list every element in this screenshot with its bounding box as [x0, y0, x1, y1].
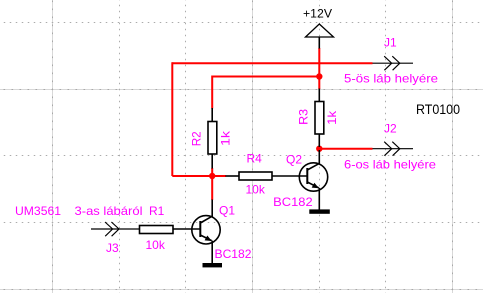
- resistor R2: [208, 108, 217, 169]
- label R2: [190, 131, 204, 146]
- label R4: [247, 152, 263, 166]
- svg-text:+12V: +12V: [303, 7, 332, 21]
- label net 3-as labarol: [75, 204, 143, 218]
- label R1: [149, 204, 165, 218]
- label Q2 type BC182: [273, 195, 313, 209]
- svg-text:10k: 10k: [246, 183, 266, 197]
- svg-text:Q2: Q2: [286, 152, 302, 166]
- svg-text:J3: J3: [106, 241, 119, 255]
- label R1 value 10k: [146, 238, 166, 252]
- wire stub junction to R4: [212, 175, 226, 177]
- junction dot node B (R3/Q2/J2): [316, 146, 322, 152]
- label R3: [296, 109, 310, 125]
- wire junction down to Q1 collector: [211, 168, 213, 200]
- label R3 value 1k: [325, 110, 339, 125]
- power +12V symbol: [306, 24, 334, 49]
- svg-text:R4: R4: [247, 152, 263, 166]
- connector J3: [91, 222, 140, 236]
- label J1: [384, 36, 397, 50]
- transistor Q1: [192, 200, 220, 264]
- ground Q2 emitter: [309, 209, 330, 213]
- svg-text:BC182: BC182: [215, 247, 252, 261]
- svg-text:5-ös láb helyére: 5-ös láb helyére: [344, 72, 438, 86]
- svg-text:R3: R3: [296, 109, 310, 125]
- svg-text:UM3561: UM3561: [15, 204, 61, 218]
- label net 5-os lab helyere: [344, 72, 438, 86]
- transistor Q2: [299, 150, 327, 210]
- junction dot +12V/R2/R3: [316, 73, 322, 79]
- label Q1 type BC182: [215, 247, 252, 261]
- svg-text:RT0100: RT0100: [416, 101, 460, 117]
- svg-text:3-as lábáról: 3-as lábáról: [75, 204, 143, 218]
- wire R2 top vertical: [211, 76, 213, 109]
- resistor R3: [315, 89, 324, 148]
- label +12V: [303, 7, 332, 21]
- label Q1: [219, 204, 235, 218]
- connector J2: [373, 142, 414, 156]
- wire net1 bottom horizontal: [172, 175, 212, 177]
- wire node B to J2: [319, 148, 372, 150]
- label RT0100: [416, 101, 460, 117]
- label R4 value 10k: [246, 183, 266, 197]
- svg-text:J2: J2: [384, 121, 397, 135]
- wire +12V vertical: [318, 48, 320, 89]
- wire R2 top horizontal: [212, 76, 319, 78]
- label net 6-os lab helyere: [344, 158, 436, 172]
- svg-text:R1: R1: [149, 204, 165, 218]
- svg-text:1k: 1k: [325, 110, 339, 125]
- label UM3561: [15, 204, 61, 218]
- wire net1 top horizontal to J1: [172, 62, 372, 64]
- wire net1 left vertical: [171, 62, 173, 176]
- label J2: [384, 121, 397, 135]
- svg-text:R2: R2: [190, 131, 204, 146]
- resistor R4: [226, 172, 308, 180]
- svg-text:1k: 1k: [218, 130, 232, 146]
- svg-text:6-os láb helyére: 6-os láb helyére: [344, 158, 436, 172]
- svg-text:Q1: Q1: [219, 204, 235, 218]
- ground Q1 emitter: [203, 263, 223, 267]
- label Q2: [286, 152, 302, 166]
- resistor R1: [140, 226, 201, 234]
- connector J1: [373, 56, 414, 70]
- label J3: [106, 241, 119, 255]
- svg-text:BC182: BC182: [273, 195, 313, 209]
- svg-text:J1: J1: [384, 36, 397, 50]
- label R2 value 1k: [218, 130, 232, 146]
- junction dot node A (R2/R4/Q1): [209, 173, 215, 179]
- svg-text:10k: 10k: [146, 238, 166, 252]
